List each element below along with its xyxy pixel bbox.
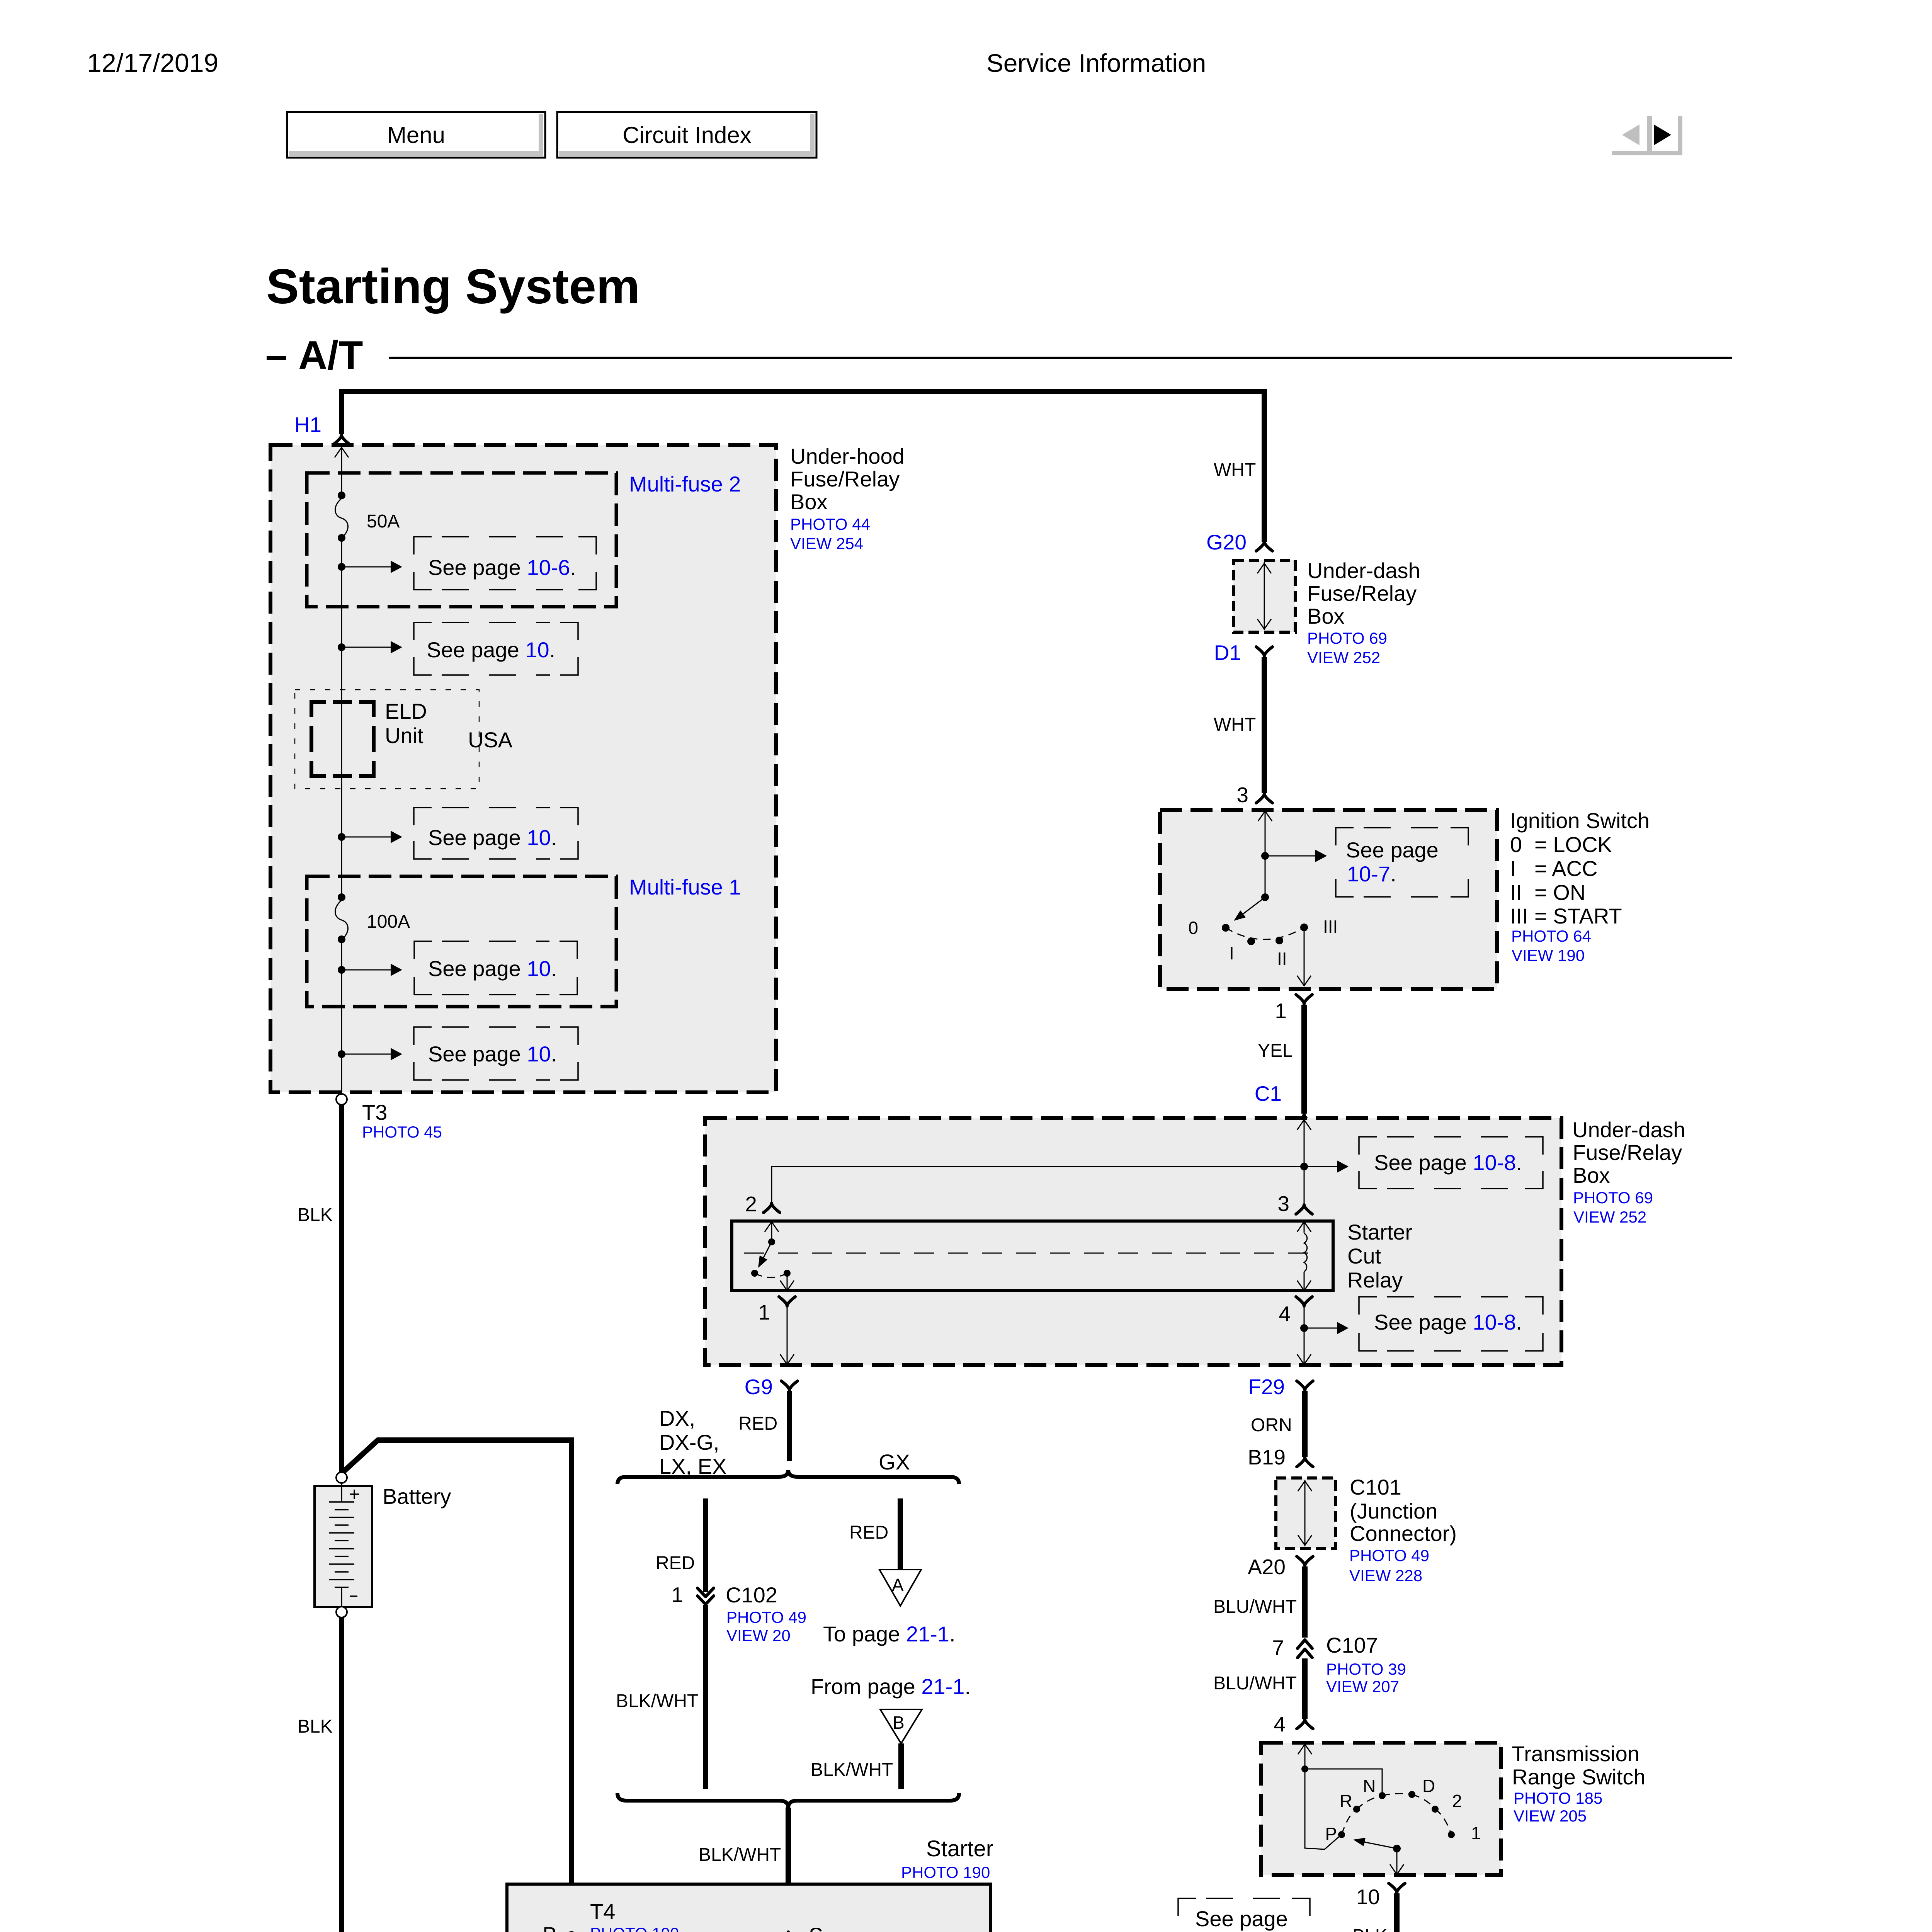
connector pin 4 (starter cut relay)	[1296, 1297, 1312, 1306]
connector D1 (female half)	[1256, 647, 1272, 656]
svg-text:See page 10.: See page 10.	[428, 825, 557, 850]
svg-text:4: 4	[1274, 1712, 1286, 1736]
starter cut relay box	[732, 1221, 1333, 1291]
svg-text:BLK/WHT: BLK/WHT	[699, 1845, 781, 1865]
svg-text:7: 7	[1272, 1636, 1284, 1660]
svg-text:Transmission: Transmission	[1512, 1742, 1639, 1766]
under-hood fuse/relay box	[270, 445, 776, 1092]
wire pin1 to C1 (YEL)	[1301, 1005, 1307, 1114]
svg-text:See page 10-8.: See page 10-8.	[1374, 1150, 1522, 1175]
svg-text:I: I	[1510, 856, 1516, 881]
svg-text:Box: Box	[1573, 1163, 1610, 1187]
merge brace (bottom)	[617, 1793, 959, 1808]
svg-text:BLK/WHT: BLK/WHT	[811, 1760, 893, 1780]
subtitle dash	[267, 356, 286, 360]
svg-text:1: 1	[1275, 999, 1287, 1023]
ignition switch rotor contact	[1261, 893, 1269, 901]
svg-text:YEL: YEL	[1258, 1041, 1293, 1061]
svg-text:ELD: ELD	[385, 699, 427, 723]
see page 10 reference box (second)	[414, 622, 578, 675]
svg-text:10: 10	[1356, 1885, 1380, 1909]
svg-text:Box: Box	[1307, 604, 1345, 628]
wire D1 to ignition switch (WHT)	[1262, 657, 1267, 793]
svg-text:GX: GX	[879, 1450, 910, 1474]
battery + sign	[350, 1490, 359, 1499]
wire right branch (RED to A)	[898, 1498, 903, 1569]
connector pin 3 (starter cut relay)	[1296, 1205, 1312, 1214]
svg-text:Cut: Cut	[1347, 1244, 1381, 1268]
svg-text:A: A	[892, 1575, 904, 1595]
svg-text:H1: H1	[294, 413, 321, 437]
svg-text:1: 1	[671, 1583, 683, 1607]
svg-text:PHOTO 44: PHOTO 44	[790, 515, 870, 533]
svg-text:Fuse/Relay: Fuse/Relay	[1573, 1140, 1682, 1165]
svg-text:See page 10.: See page 10.	[427, 638, 555, 662]
wire C107 to TRS (BLU/WHT)	[1302, 1658, 1308, 1719]
wire F29 down (ORN)	[1302, 1391, 1308, 1457]
svg-text:C1: C1	[1255, 1082, 1282, 1105]
svg-text:III: III	[1510, 904, 1528, 928]
coil	[1304, 1233, 1307, 1272]
connector pin 4 (transmission range switch)	[1297, 1719, 1313, 1729]
wire relay pin1 to G9	[787, 1307, 788, 1363]
connector B19 (male half)	[1297, 1458, 1313, 1467]
connector C1 (male half)	[1296, 1114, 1312, 1124]
svg-text:VIEW 252: VIEW 252	[1307, 648, 1380, 667]
svg-text:Fuse/Relay: Fuse/Relay	[1307, 581, 1417, 605]
battery	[336, 1472, 347, 1483]
fuse 50A	[338, 492, 345, 499]
svg-text:Starter: Starter	[926, 1836, 993, 1861]
svg-text:See page: See page	[1195, 1906, 1288, 1931]
svg-text:PHOTO 45: PHOTO 45	[362, 1123, 442, 1141]
svg-text:= ACC: = ACC	[1534, 856, 1597, 881]
svg-text:Circuit Index: Circuit Index	[622, 122, 751, 148]
svg-text:4: 4	[1279, 1302, 1291, 1326]
svg-text:C102: C102	[726, 1583, 777, 1607]
relay switch contact side	[771, 1221, 772, 1242]
svg-text:Range Switch: Range Switch	[1512, 1765, 1646, 1789]
svg-text:= ON: = ON	[1534, 880, 1585, 905]
arrow to see page 10 (fourth)	[342, 969, 394, 971]
wire left branch (BLK/WHT)	[703, 1605, 708, 1789]
svg-text:PHOTO 190: PHOTO 190	[901, 1863, 990, 1881]
fuse 100A	[338, 893, 345, 901]
svg-text:Service Information: Service Information	[986, 49, 1206, 77]
svg-text:See page 10.: See page 10.	[428, 1042, 557, 1066]
connector pin 2 (starter cut relay)	[764, 1203, 780, 1213]
junction to see page 10-8 (lower)	[1300, 1324, 1308, 1332]
svg-text:RED: RED	[738, 1413, 777, 1434]
svg-text:R: R	[1340, 1791, 1352, 1811]
see page 10 reference box (fourth)	[414, 941, 577, 995]
svg-text:VIEW 20: VIEW 20	[726, 1626, 791, 1645]
connector C107 pin 7 (in-line, double chevron up)	[1298, 1640, 1312, 1648]
relay internal dashed midline	[744, 1253, 1321, 1254]
svg-text:G9: G9	[745, 1375, 773, 1399]
svg-text:Multi-fuse 2: Multi-fuse 2	[629, 472, 741, 496]
see page 10 reference box (fifth)	[414, 1027, 578, 1080]
svg-text:T3: T3	[362, 1100, 387, 1124]
under-dash fuse/relay box (main)	[705, 1118, 1561, 1365]
svg-text:C101: C101	[1350, 1475, 1401, 1499]
svg-text:B: B	[543, 1922, 557, 1932]
svg-text:WHT: WHT	[1214, 460, 1256, 480]
svg-text:Unit: Unit	[385, 723, 423, 748]
svg-text:G20: G20	[1206, 530, 1247, 554]
C101 junction connector box	[1276, 1478, 1335, 1548]
ignition switch contacts 0 I II III	[1222, 924, 1230, 932]
svg-text:= START: = START	[1534, 904, 1622, 928]
wire relay pin4 to F29	[1304, 1307, 1305, 1363]
svg-text:Under-dash: Under-dash	[1572, 1117, 1685, 1142]
svg-text:C107: C107	[1326, 1633, 1378, 1657]
see page 14-1 reference box	[1178, 1898, 1310, 1932]
see page 10-6 reference box	[414, 537, 596, 590]
svg-text:VIEW 228: VIEW 228	[1349, 1566, 1422, 1585]
branch line to pin 2 and see page 10-8	[772, 1167, 1340, 1202]
svg-text:VIEW 205: VIEW 205	[1514, 1807, 1587, 1825]
svg-text:1: 1	[1471, 1823, 1481, 1843]
svg-text:USA: USA	[468, 728, 513, 752]
wire battery+ feed: H1 up, across top, down to G20	[342, 391, 1264, 542]
junction to see page 10 (fourth)	[338, 966, 345, 974]
wire merged to starter S (BLK/WHT)	[786, 1808, 791, 1930]
arrow to see page 10 (third)	[342, 837, 394, 838]
svg-text:10-7.: 10-7.	[1347, 862, 1396, 886]
junction to see page 10 (second)	[338, 643, 345, 651]
arrow to see page 10-8 (lower)	[1304, 1328, 1340, 1329]
arrow to see page 10-7	[1265, 855, 1318, 857]
ELD unit inner box	[311, 702, 374, 776]
wire T3 to battery + (BLK)	[339, 1105, 344, 1473]
svg-text:VIEW 254: VIEW 254	[790, 534, 863, 553]
svg-text:Menu: Menu	[387, 122, 445, 148]
svg-text:F29: F29	[1248, 1375, 1285, 1399]
svg-text:VIEW 190: VIEW 190	[1512, 946, 1585, 964]
connector pin 3 (ignition switch)	[1256, 794, 1272, 803]
svg-text:II: II	[1510, 880, 1522, 905]
off-page connector A (triangle)	[879, 1570, 921, 1606]
svg-text:B19: B19	[1248, 1445, 1286, 1469]
junction to see page 10 (fifth)	[338, 1050, 345, 1058]
svg-text:Under-dash: Under-dash	[1307, 558, 1420, 583]
svg-text:T4: T4	[590, 1899, 615, 1923]
ignition switch internal feed	[1265, 811, 1266, 897]
TRS contacts P R N D 2 1	[1338, 1831, 1345, 1838]
svg-text:See page 10-8.: See page 10-8.	[1374, 1310, 1522, 1334]
button Menu (top)	[287, 112, 545, 158]
svg-text:VIEW 207: VIEW 207	[1326, 1677, 1399, 1696]
svg-text:BLU/WHT: BLU/WHT	[1213, 1597, 1297, 1617]
svg-text:RED: RED	[656, 1553, 695, 1573]
svg-text:D: D	[1422, 1776, 1435, 1796]
svg-text:Under-hood: Under-hood	[790, 444, 905, 468]
see page 10-8 reference box (lower)	[1359, 1297, 1543, 1351]
svg-text:VIEW 252: VIEW 252	[1573, 1208, 1646, 1226]
arrow to see page 10 (second)	[342, 647, 394, 648]
internal feed C1 to relay pin 3	[1304, 1119, 1305, 1204]
see page 10-8 reference box (upper)	[1359, 1137, 1543, 1189]
subtitle rule line	[389, 357, 1732, 359]
svg-text:0: 0	[1510, 832, 1522, 857]
svg-text:ORN: ORN	[1251, 1415, 1292, 1435]
svg-text:PHOTO 190: PHOTO 190	[590, 1924, 679, 1932]
off-page connector B (triangle)	[880, 1709, 922, 1743]
svg-text:Multi-fuse 1: Multi-fuse 1	[629, 875, 741, 899]
connector C102 (in-line, double chevron)	[697, 1588, 714, 1597]
button Circuit Index (top)	[557, 112, 816, 158]
svg-text:DX-G,: DX-G,	[659, 1430, 719, 1454]
svg-text:P: P	[1325, 1824, 1337, 1844]
junction to see page 10-7	[1261, 852, 1269, 860]
svg-text:2: 2	[745, 1192, 757, 1216]
svg-text:B: B	[893, 1713, 905, 1733]
svg-text:See page: See page	[1346, 838, 1439, 862]
svg-text:D1: D1	[1214, 641, 1241, 665]
terminal T3	[336, 1094, 347, 1105]
TRS internal feed	[1304, 1743, 1306, 1769]
wire from III contact to pin 1	[1304, 931, 1305, 985]
svg-text:Box: Box	[790, 490, 828, 514]
svg-text:LX, EX: LX, EX	[659, 1454, 726, 1478]
connector pin 1 (starter cut relay)	[779, 1297, 795, 1306]
see page 10 reference box (third)	[414, 808, 578, 859]
svg-text:Starter: Starter	[1347, 1220, 1412, 1244]
svg-text:RED: RED	[849, 1522, 888, 1543]
ignition switch box	[1160, 810, 1497, 989]
svg-text:To page 21-1.: To page 21-1.	[823, 1622, 956, 1646]
TRS rotor arm	[1393, 1845, 1401, 1852]
svg-text:BLK: BLK	[1352, 1926, 1388, 1932]
svg-text:PHOTO 64: PHOTO 64	[1511, 927, 1591, 945]
wire TRS to C107 pin1 (BLK)	[1394, 1893, 1400, 1932]
connector G20 (male half)	[1256, 542, 1272, 551]
svg-text:S: S	[809, 1923, 823, 1932]
svg-text:From page 21-1.: From page 21-1.	[811, 1674, 971, 1699]
pager control (top)	[1612, 116, 1682, 155]
svg-text:Fuse/Relay: Fuse/Relay	[790, 467, 900, 491]
svg-text:PHOTO 185: PHOTO 185	[1514, 1789, 1602, 1807]
svg-text:BLU/WHT: BLU/WHT	[1213, 1673, 1297, 1694]
svg-text:PHOTO 69: PHOTO 69	[1307, 629, 1387, 647]
split brace (top)	[617, 1470, 959, 1484]
wire G9 down (RED)	[787, 1391, 792, 1461]
svg-text:Battery: Battery	[383, 1484, 451, 1509]
under-dash fuse/relay box (connector G20-D1)	[1233, 560, 1295, 632]
wire left branch (RED to C102)	[703, 1498, 708, 1592]
connector F29 (female half)	[1297, 1381, 1313, 1390]
connector H1 (male half)	[333, 435, 350, 444]
battery - sign	[350, 1595, 357, 1597]
svg-text:III: III	[1323, 917, 1338, 937]
svg-text:BLK/WHT: BLK/WHT	[616, 1691, 698, 1711]
svg-text:Starting System: Starting System	[266, 259, 640, 314]
wire battery- to G1 (BLK)	[339, 1617, 344, 1932]
wire from B (BLK/WHT)	[898, 1743, 904, 1789]
Multi-fuse 2 block	[307, 473, 616, 607]
junction to see page 10-6	[338, 563, 345, 571]
svg-text:Relay: Relay	[1347, 1268, 1403, 1292]
svg-text:1: 1	[758, 1300, 770, 1324]
svg-text:PHOTO 39: PHOTO 39	[1326, 1660, 1406, 1678]
svg-text:DX,: DX,	[659, 1406, 695, 1430]
transmission range switch box	[1261, 1743, 1501, 1875]
see page 10-7 reference box	[1336, 828, 1468, 897]
starter box	[507, 1884, 991, 1932]
ELD unit outer dashed box (USA)	[295, 690, 479, 789]
svg-text:A/T: A/T	[298, 333, 363, 378]
svg-text:BLK: BLK	[298, 1205, 333, 1225]
wire A20 to C107 (BLU/WHT)	[1302, 1566, 1308, 1638]
svg-text:WHT: WHT	[1214, 714, 1256, 735]
svg-text:See page 10.: See page 10.	[428, 956, 557, 981]
svg-text:N: N	[1363, 1776, 1376, 1796]
svg-text:See page 10-6.: See page 10-6.	[428, 555, 576, 580]
arrow to see page 10 (fifth)	[342, 1054, 394, 1055]
connector pin 1 (ignition switch)	[1296, 995, 1312, 1004]
svg-text:I: I	[1229, 943, 1234, 963]
svg-text:0: 0	[1188, 918, 1198, 938]
svg-text:Ignition Switch: Ignition Switch	[1510, 808, 1650, 833]
svg-text:PHOTO 49: PHOTO 49	[1349, 1546, 1429, 1565]
wire internal bus through under-hood box	[341, 445, 342, 495]
svg-text:(Junction: (Junction	[1350, 1499, 1437, 1523]
svg-text:PHOTO 49: PHOTO 49	[726, 1608, 806, 1626]
arrow to see page 10-6	[342, 566, 394, 568]
connector A20 (female half)	[1297, 1556, 1313, 1566]
svg-text:50A: 50A	[367, 511, 400, 532]
svg-text:12/17/2019: 12/17/2019	[87, 48, 218, 78]
svg-text:= LOCK: = LOCK	[1534, 832, 1612, 857]
svg-text:BLK: BLK	[298, 1716, 333, 1737]
svg-text:3: 3	[1236, 783, 1248, 807]
svg-text:3: 3	[1277, 1192, 1289, 1216]
junction to see page 10 (third)	[338, 833, 345, 841]
svg-text:II: II	[1277, 949, 1287, 969]
svg-text:Connector): Connector)	[1350, 1521, 1457, 1546]
Multi-fuse 1 block	[307, 876, 616, 1007]
svg-text:100A: 100A	[367, 912, 410, 932]
svg-text:2: 2	[1452, 1791, 1462, 1811]
wire branch battery+ to starter B terminal	[342, 1440, 571, 1932]
connector pin 10 (transmission range switch)	[1389, 1883, 1405, 1893]
relay coil side	[1304, 1221, 1305, 1233]
svg-text:PHOTO 69: PHOTO 69	[1573, 1189, 1653, 1207]
svg-text:A20: A20	[1248, 1555, 1286, 1579]
connector G9 (female half)	[781, 1381, 798, 1390]
